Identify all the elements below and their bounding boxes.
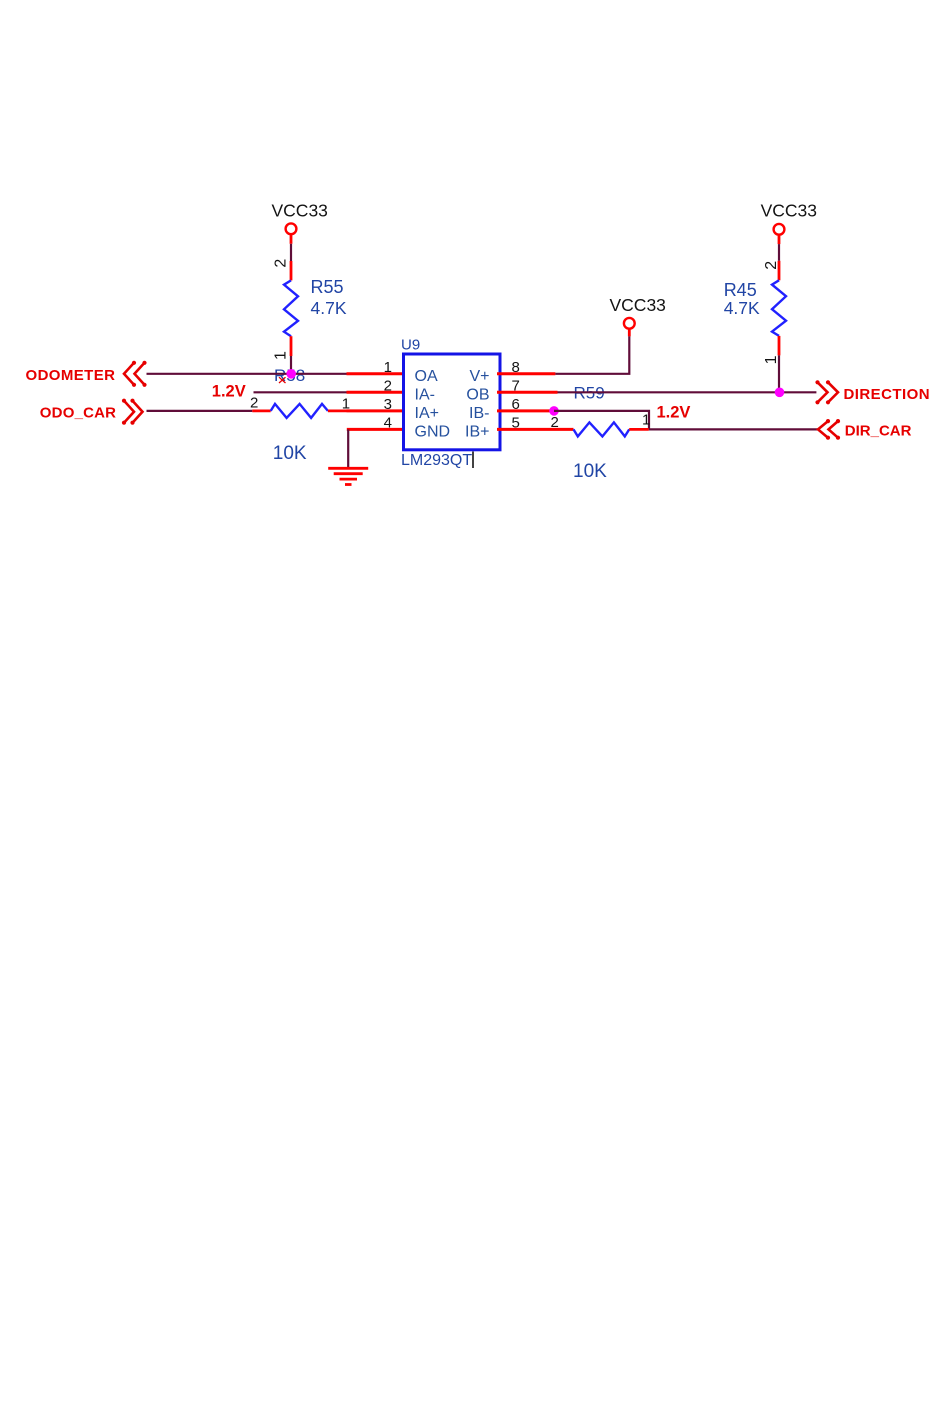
svg-text:VCC33: VCC33 xyxy=(761,201,817,221)
svg-text:V+: V+ xyxy=(469,368,489,385)
svg-text:1: 1 xyxy=(642,412,650,429)
port DIR_CAR (chevron and label) xyxy=(818,419,912,440)
junction node (DIRECTION / R45) xyxy=(775,388,785,398)
wire R55 pin1 down to node xyxy=(290,356,292,374)
power symbol VCC33 (middle, for U9 V+) xyxy=(610,295,666,337)
pin 6 stub (U9 IB-) xyxy=(497,409,554,412)
pin 8 stub (U9 V+) xyxy=(497,372,555,375)
svg-text:4.7K: 4.7K xyxy=(724,298,760,318)
svg-text:GND: GND xyxy=(415,423,451,440)
svg-text:1.2V: 1.2V xyxy=(212,383,246,401)
port DIRECTION (chevron and label) xyxy=(815,380,930,404)
pin 3 stub (U9 IA+) xyxy=(347,409,404,412)
svg-text:IA-: IA- xyxy=(415,386,435,403)
svg-text:2: 2 xyxy=(763,261,780,270)
junction node (ODOMETER / R55) xyxy=(286,369,296,379)
port ODO_CAR (chevron and label) xyxy=(40,399,143,425)
pin 5 stub (U9 IB+) xyxy=(497,428,574,431)
svg-text:IA+: IA+ xyxy=(415,405,439,422)
svg-text:IB-: IB- xyxy=(469,405,489,422)
svg-text:LM293QT: LM293QT xyxy=(401,452,472,469)
pin 4 stub (U9 GND) xyxy=(347,428,404,431)
junction node (IB- / 1.2V wire) xyxy=(549,406,559,416)
wire 1.2V net to pin 2 xyxy=(254,391,347,393)
power symbol VCC33 (right, for R45) xyxy=(761,201,817,245)
svg-text:2: 2 xyxy=(551,414,559,431)
svg-text:OB: OB xyxy=(466,386,489,403)
wire DIRECTION net xyxy=(558,391,817,393)
svg-text:2: 2 xyxy=(384,377,392,394)
op-amp U9 (LM293QT comparator body) xyxy=(401,337,500,470)
svg-text:DIR_CAR: DIR_CAR xyxy=(845,422,912,439)
svg-text:DIRECTION: DIRECTION xyxy=(844,386,931,403)
svg-text:R55: R55 xyxy=(311,277,344,297)
svg-text:1: 1 xyxy=(763,355,780,364)
svg-text:ODOMETER: ODOMETER xyxy=(26,367,116,384)
svg-text:U9: U9 xyxy=(401,337,420,354)
pin 7 stub (U9 OB) xyxy=(497,391,558,394)
svg-text:4.7K: 4.7K xyxy=(311,298,347,318)
wire ODOMETER net xyxy=(147,373,347,375)
svg-text:2: 2 xyxy=(250,395,258,412)
DRC marker (small red cross under junction) xyxy=(279,377,286,383)
svg-text:1: 1 xyxy=(273,351,290,360)
wire V+ to VCC33 xyxy=(555,336,629,373)
svg-text:IB+: IB+ xyxy=(465,423,489,440)
svg-text:ODO_CAR: ODO_CAR xyxy=(40,404,116,421)
pin 2 stub (U9 IA-) xyxy=(347,391,404,394)
wire VCC33 to R45 pin 2 xyxy=(778,244,780,261)
svg-text:OA: OA xyxy=(415,368,438,385)
wire ODO_CAR net xyxy=(147,410,253,412)
wire DIR_CAR net xyxy=(649,428,818,430)
resistor R45 4.7K xyxy=(772,261,786,356)
svg-text:R45: R45 xyxy=(724,280,757,300)
wire 1.2V net (right), over and down xyxy=(554,411,649,430)
svg-text:2: 2 xyxy=(273,259,290,268)
svg-text:VCC33: VCC33 xyxy=(272,201,328,221)
svg-text:10K: 10K xyxy=(273,443,307,464)
resistor R59 10K (horizontal) xyxy=(574,422,649,436)
svg-text:3: 3 xyxy=(384,396,392,413)
svg-text:1.2V: 1.2V xyxy=(657,403,691,421)
power symbol VCC33 (left, for R55) xyxy=(272,201,328,244)
svg-text:VCC33: VCC33 xyxy=(610,295,666,315)
wire R45 pin1 down to DIRECTION node xyxy=(778,355,780,392)
svg-text:10K: 10K xyxy=(573,461,607,482)
wire VCC33 to R55 pin 2 xyxy=(290,244,292,261)
ground xyxy=(328,468,368,484)
resistor R58 10K (horizontal) xyxy=(252,404,346,418)
resistor R55 4.7K xyxy=(284,261,298,356)
wire GND down xyxy=(347,429,349,467)
svg-text:1: 1 xyxy=(384,359,392,376)
pin 1 stub (U9 OA) xyxy=(347,372,404,375)
port ODOMETER (chevron and label) xyxy=(26,361,147,387)
svg-text:4: 4 xyxy=(384,414,392,431)
text cursor after LM293QT xyxy=(472,452,474,469)
